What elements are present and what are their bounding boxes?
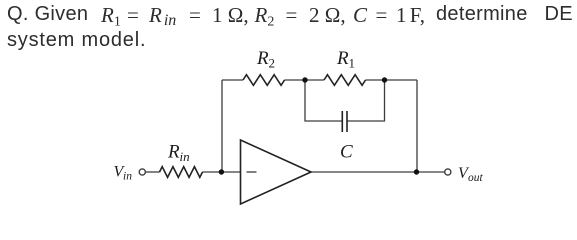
- svg-text:2: 2: [269, 56, 276, 71]
- svg-text:out: out: [468, 172, 484, 184]
- svg-text:R: R: [336, 48, 349, 69]
- svg-text:in: in: [180, 149, 190, 164]
- svg-text:R: R: [167, 142, 180, 163]
- svg-text:R: R: [256, 48, 269, 69]
- svg-text:1: 1: [349, 56, 356, 71]
- svg-text:C: C: [340, 142, 353, 163]
- svg-text:in: in: [123, 171, 132, 183]
